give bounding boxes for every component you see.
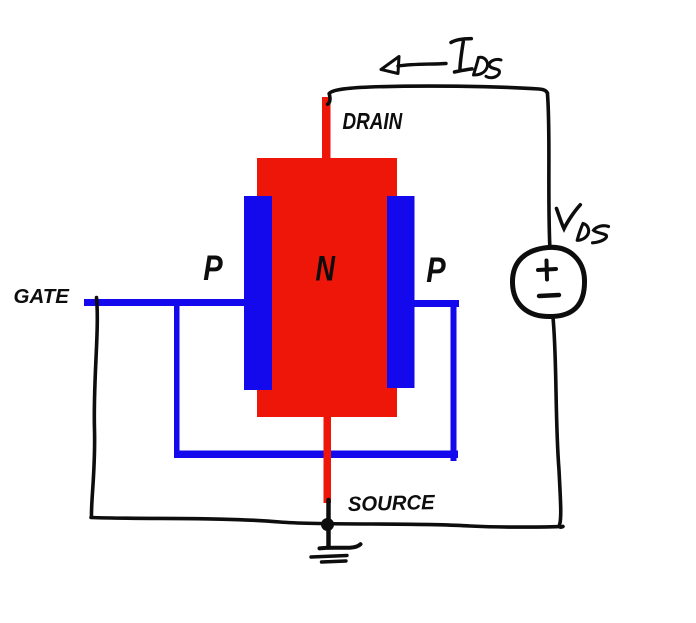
wire VDS bottom to source node — [553, 318, 563, 528]
svg-text:DRAIN: DRAIN — [343, 109, 403, 134]
wire gate loop right vertical (blue) — [451, 304, 457, 461]
gate region P right (blue) — [387, 196, 415, 388]
wire gate black left vertical — [91, 298, 97, 517]
minus sign — [539, 295, 559, 296]
wire gate stub right (blue) — [414, 300, 459, 307]
wire source bottom horizontal — [91, 518, 563, 528]
current arrow IDS open head — [381, 57, 399, 74]
label VDS handwritten S subscript — [593, 226, 609, 243]
ground bar 2 — [311, 556, 347, 558]
svg-text:P: P — [203, 248, 223, 287]
wire gate loop bottom (blue) — [174, 451, 458, 459]
source lead (red) — [324, 415, 332, 503]
label IDS handwritten S subscript — [486, 59, 501, 77]
label VDS handwritten V — [557, 205, 581, 229]
voltage source VDS circle — [512, 247, 584, 316]
wire drain to VDS top — [328, 86, 548, 104]
region N channel (red) — [257, 158, 397, 417]
svg-text:SOURCE: SOURCE — [348, 491, 437, 516]
label VDS handwritten D subscript — [577, 224, 588, 241]
svg-text:N: N — [316, 248, 337, 289]
svg-text:GATE: GATE — [14, 285, 71, 308]
plus sign — [538, 269, 556, 270]
junction source node dot — [321, 518, 334, 531]
label IDS handwritten I — [451, 39, 472, 72]
wire gate loop left vertical (blue) — [174, 303, 180, 455]
source black lead segment — [326, 500, 331, 547]
wire gate horizontal (blue) — [84, 299, 247, 306]
svg-text:P: P — [426, 250, 446, 289]
label IDS handwritten D subscript — [474, 57, 488, 75]
ground bar 3 — [322, 561, 347, 562]
wire VDS right vertical upper — [547, 93, 549, 246]
drain lead (red) — [322, 97, 331, 160]
current arrow IDS shaft — [398, 64, 446, 67]
gate region P left (blue) — [244, 196, 272, 390]
ground bar 1 — [320, 544, 361, 548]
